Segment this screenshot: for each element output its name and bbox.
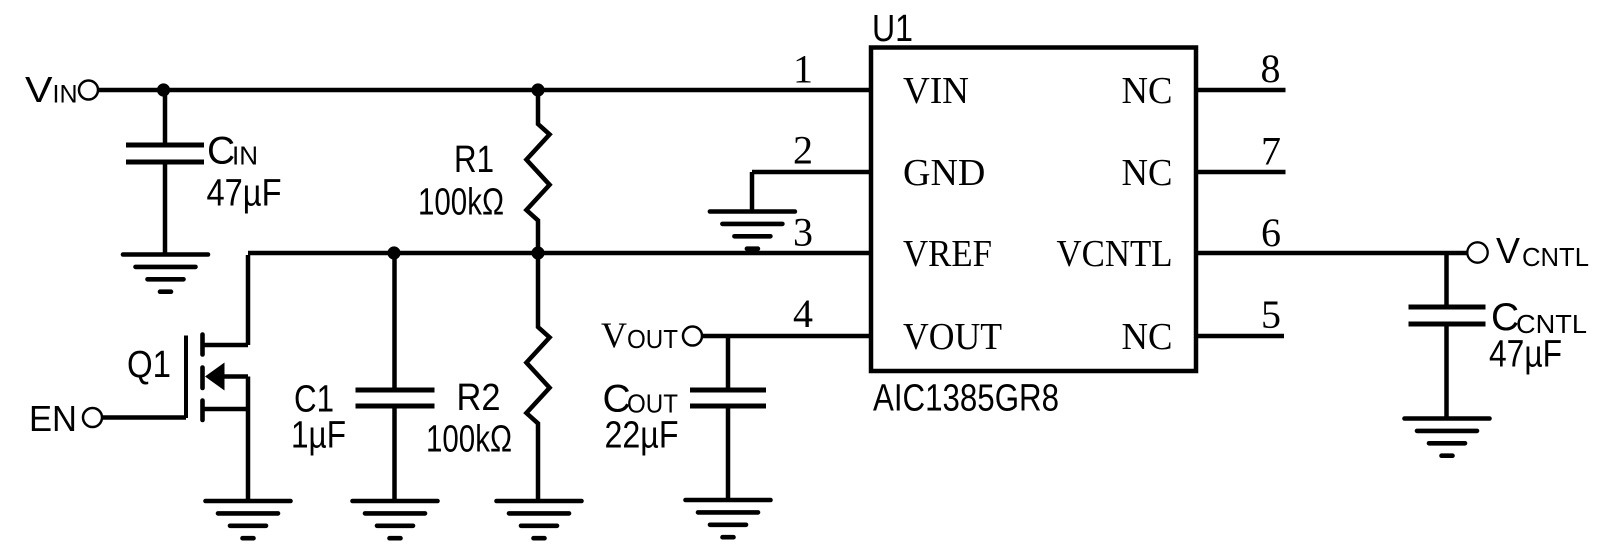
wire COUT drop: [726, 336, 731, 388]
svg-text:NC: NC: [1122, 316, 1173, 358]
pin 5 number: [1261, 292, 1281, 337]
svg-text:100kΩ: 100kΩ: [418, 182, 504, 224]
capacitor COUT: [690, 390, 766, 406]
wire pin 7 stub: [1196, 170, 1286, 175]
wire Q1 drain vertical: [246, 255, 251, 345]
pin label VIN: [903, 70, 969, 112]
wire EN to gate: [103, 415, 187, 420]
pin label VOUT: [903, 316, 1002, 358]
pin label VREF: [903, 233, 992, 275]
pin 4 number: [793, 291, 813, 336]
wire CIN top: [163, 90, 168, 143]
ground Q1: [206, 501, 291, 538]
node VOUT terminal: [683, 327, 702, 346]
label VCNTL: [1496, 230, 1589, 272]
capacitor CIN: [126, 145, 204, 162]
node junction CIN: [157, 83, 170, 96]
pin 7 number: [1261, 128, 1281, 173]
wire C1 top: [392, 255, 397, 388]
wire Q1 body horizontal: [222, 374, 248, 379]
svg-text:1: 1: [793, 47, 813, 92]
node junction C1 top: [387, 246, 400, 259]
svg-text:EN: EN: [29, 398, 77, 439]
svg-text:3: 3: [793, 209, 813, 254]
Q1 body arrow: [205, 363, 225, 391]
capacitor CCNTL: [1409, 307, 1486, 324]
wire GND pin stub: [752, 170, 871, 175]
node VIN terminal: [79, 81, 98, 100]
ground R2: [497, 501, 582, 538]
svg-text:100kΩ: 100kΩ: [426, 419, 512, 461]
pin 6 number: [1261, 210, 1281, 255]
label CCNTL 47uF: [1489, 296, 1587, 376]
wire C1 bottom: [392, 409, 397, 502]
wire Q1 drain horizontal: [203, 343, 248, 348]
svg-text:V: V: [1496, 230, 1520, 271]
pin 3 number: [793, 209, 813, 254]
svg-text:NC: NC: [1122, 152, 1173, 194]
pin label VCNTL: [1057, 233, 1173, 275]
svg-text:AIC1385GR8: AIC1385GR8: [873, 378, 1059, 420]
svg-text:V: V: [601, 315, 627, 355]
Q1 channel bars: [200, 335, 205, 421]
svg-text:VREF: VREF: [903, 233, 992, 275]
pin 2 number: [793, 128, 813, 173]
pin label GND: [903, 152, 985, 194]
svg-text:5: 5: [1261, 292, 1281, 337]
label R1 100k: [418, 139, 504, 224]
node junction R1 top: [531, 83, 544, 96]
pin 1 number: [793, 47, 813, 92]
svg-text:C: C: [207, 130, 235, 173]
wire VIN rail: [99, 88, 872, 93]
label VOUT: [601, 315, 678, 355]
label U1: [872, 8, 913, 50]
svg-text:VOUT: VOUT: [903, 316, 1002, 358]
node EN terminal: [83, 408, 102, 427]
wire VREF rail: [248, 251, 871, 256]
ground GND pin: [710, 212, 795, 249]
wire CIN bottom: [163, 165, 168, 255]
label EN: [29, 398, 77, 439]
label VIN: [25, 69, 78, 110]
svg-text:IN: IN: [232, 141, 258, 171]
svg-text:GND: GND: [903, 152, 985, 194]
label COUT 22uF: [603, 378, 679, 457]
svg-text:8: 8: [1261, 46, 1281, 91]
wire pin 6 to VCNTL: [1196, 251, 1467, 256]
svg-text:IN: IN: [53, 81, 78, 109]
wire COUT bottom: [726, 409, 731, 501]
svg-text:R2: R2: [457, 377, 501, 419]
svg-text:CNTL: CNTL: [1522, 242, 1589, 272]
wire Q1 source vertical: [246, 377, 251, 502]
svg-text:6: 6: [1261, 210, 1281, 255]
label Q1: [127, 344, 171, 386]
pin 8 number: [1261, 46, 1281, 91]
svg-text:2: 2: [793, 128, 813, 173]
svg-text:7: 7: [1261, 128, 1281, 173]
node junction R2 top: [531, 246, 544, 259]
svg-text:V: V: [25, 69, 53, 110]
svg-text:NC: NC: [1122, 70, 1173, 112]
IC U1 box: [871, 48, 1196, 372]
resistor R1: [526, 92, 549, 253]
ground CCNTL: [1405, 419, 1490, 456]
label R2 100k: [426, 377, 512, 461]
wire GND drop: [750, 172, 755, 212]
svg-text:R1: R1: [454, 139, 494, 181]
svg-text:1µF: 1µF: [291, 415, 346, 457]
wire VOUT to chip: [703, 334, 872, 339]
transistor Q1: [186, 255, 248, 501]
svg-text:OUT: OUT: [627, 324, 678, 354]
wire CCNTL bottom: [1444, 326, 1449, 419]
capacitor C1: [356, 390, 435, 406]
label AIC1385GR8: [873, 378, 1059, 420]
ground C1: [353, 501, 438, 538]
wire Q1 source horizontal: [203, 407, 248, 412]
Q1 gate line: [184, 336, 188, 419]
pin label NC 7: [1122, 152, 1173, 194]
wire pin 8 stub: [1196, 88, 1286, 93]
ground CIN: [123, 255, 208, 292]
ground COUT: [686, 500, 771, 537]
svg-text:47µF: 47µF: [1489, 334, 1562, 376]
pin label NC 8: [1122, 70, 1173, 112]
pin label NC 5: [1122, 316, 1173, 358]
svg-text:VCNTL: VCNTL: [1057, 233, 1173, 275]
wire CCNTL top: [1444, 253, 1449, 305]
label C1 1uF: [291, 379, 346, 457]
wire pin 5 stub: [1196, 334, 1284, 339]
svg-text:22µF: 22µF: [605, 415, 679, 457]
svg-text:U1: U1: [872, 8, 913, 50]
svg-text:4: 4: [793, 291, 813, 336]
resistor R2: [526, 255, 549, 501]
label CIN 47uF: [207, 130, 282, 215]
svg-text:VIN: VIN: [903, 70, 969, 112]
node VCNTL terminal: [1467, 242, 1487, 262]
svg-text:Q1: Q1: [127, 344, 171, 386]
svg-text:47µF: 47µF: [207, 173, 282, 215]
